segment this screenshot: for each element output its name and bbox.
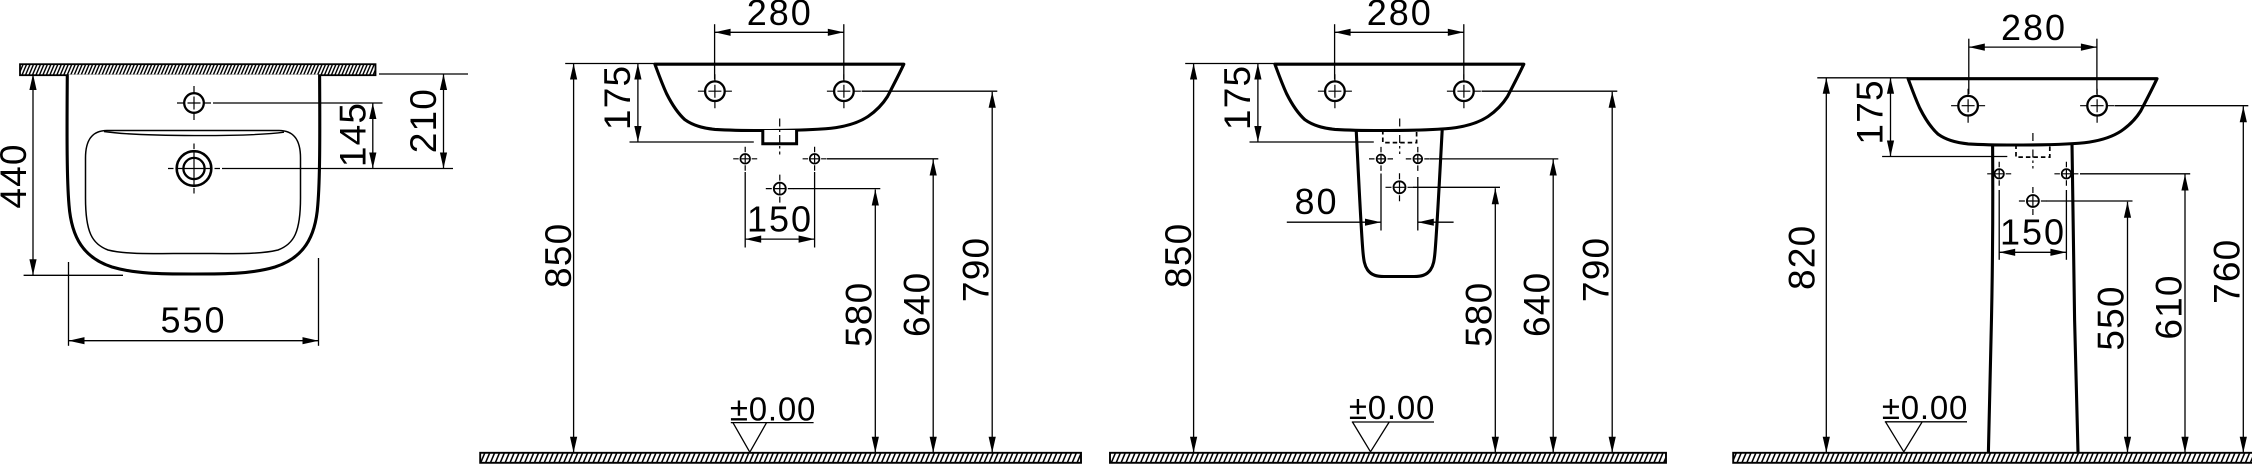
svg-text:610: 610 bbox=[2148, 274, 2189, 339]
svg-text:175: 175 bbox=[1850, 79, 1891, 144]
dimension 850 (view 3) bbox=[1158, 64, 1199, 453]
550 extension line (view 4) bbox=[2047, 200, 2133, 202]
pedestal left edge (view 4) bbox=[1988, 144, 1992, 452]
80 dim extension lines (view 3) bbox=[1380, 174, 1382, 231]
cover fixing holes (view 3) bbox=[1369, 147, 1393, 171]
dimension 210 (wall to drain) bbox=[403, 74, 447, 169]
dimension 150 (view 4) bbox=[1999, 212, 2066, 256]
dimension 175 (view 3) bbox=[1217, 64, 1262, 143]
inner bowl outline (plan) bbox=[86, 131, 301, 254]
inner bowl back ledge line bbox=[104, 132, 284, 136]
dimension 175 (rim to bottom, view 2) bbox=[597, 64, 642, 143]
extension line from tap hole to 145 dim bbox=[213, 102, 383, 104]
dimension 280 (view 4) bbox=[1969, 7, 2097, 51]
tap hole (plan) bbox=[177, 86, 211, 120]
dimension 280 (view 3) bbox=[1335, 0, 1464, 36]
washbasin front profile (view 4) bbox=[1908, 79, 2157, 145]
extension line from drain to 210/145 dims bbox=[222, 168, 453, 170]
850 top extension line (view 3) bbox=[1185, 63, 1275, 65]
580 extension line (view 3) bbox=[1413, 186, 1500, 188]
dimension 760 (view 4) bbox=[2207, 106, 2248, 453]
760 extension line (view 4) bbox=[2115, 105, 2249, 107]
svg-text:820: 820 bbox=[1782, 225, 1823, 290]
dimension 150 (fixing hole spacing, view 2) bbox=[745, 199, 814, 243]
svg-text:±0.00: ±0.00 bbox=[1882, 389, 1968, 426]
svg-text:±0.00: ±0.00 bbox=[1349, 389, 1435, 426]
dimension 580 (view 3) bbox=[1459, 188, 1500, 453]
drain/overflow hole (view 2) bbox=[766, 175, 794, 203]
svg-text:850: 850 bbox=[1158, 223, 1199, 288]
790 extension line (view 2) bbox=[862, 90, 998, 92]
svg-text:145: 145 bbox=[333, 102, 374, 167]
dimension 175 (view 4) bbox=[1850, 78, 1895, 157]
svg-text:790: 790 bbox=[955, 237, 996, 302]
svg-text:280: 280 bbox=[747, 0, 813, 33]
dimension 790 (view 3) bbox=[1575, 92, 1616, 453]
svg-text:±0.00: ±0.00 bbox=[730, 390, 816, 427]
280 extension lines (view 4) bbox=[1968, 39, 1970, 94]
drain/overflow hole (view 4) bbox=[2019, 187, 2047, 215]
svg-text:280: 280 bbox=[1367, 0, 1433, 33]
floor datum ±0.00 (view 3) bbox=[1349, 389, 1435, 452]
drain/overflow hole (view 3) bbox=[1386, 173, 1414, 201]
svg-text:850: 850 bbox=[538, 223, 579, 288]
fixing holes (view 4) bbox=[1987, 162, 2011, 186]
svg-text:175: 175 bbox=[1217, 65, 1258, 130]
svg-text:210: 210 bbox=[403, 88, 444, 153]
hidden drain tab (dashed, view 4) bbox=[2016, 145, 2050, 158]
floor line (view 2) bbox=[480, 453, 1081, 463]
150 extension lines (view 4) bbox=[1998, 190, 2000, 260]
640 extension line (view 3) bbox=[1430, 158, 1558, 160]
850 top extension line (view 2) bbox=[565, 63, 655, 65]
hidden drain tab (dashed, view 3) bbox=[1383, 130, 1417, 143]
svg-text:760: 760 bbox=[2207, 239, 2248, 304]
175 bottom extension line (view 2) bbox=[630, 141, 754, 143]
dimension 280 (tap hole spacing, view 2) bbox=[715, 0, 844, 36]
175 bottom extension line (view 4) bbox=[1882, 156, 2007, 158]
svg-text:550: 550 bbox=[2091, 285, 2132, 350]
820 top extension line (view 4) bbox=[1817, 77, 1908, 79]
svg-text:150: 150 bbox=[2000, 212, 2066, 253]
svg-text:640: 640 bbox=[1517, 272, 1558, 337]
siphon cover (half pedestal, view 3) bbox=[1356, 130, 1442, 277]
washbasin front profile (view 3) bbox=[1275, 64, 1524, 130]
fixing holes (view 2) bbox=[733, 147, 757, 171]
floor line (view 3) bbox=[1110, 453, 1666, 463]
svg-text:550: 550 bbox=[160, 300, 226, 341]
floor line (view 4) bbox=[1733, 453, 2252, 463]
280 extension lines (view 2) bbox=[714, 24, 716, 79]
dimension 550 (view 4) bbox=[2091, 202, 2132, 453]
580 extension line (view 2) bbox=[794, 188, 881, 190]
150 extension lines (view 2) bbox=[744, 172, 746, 248]
dimension 790 (view 2) bbox=[955, 92, 996, 453]
drain tab (view 2) bbox=[763, 130, 797, 144]
dimension 440 (basin depth) bbox=[0, 74, 37, 275]
svg-text:640: 640 bbox=[897, 272, 938, 337]
svg-text:280: 280 bbox=[2001, 7, 2067, 48]
extension line wall bottom to 210 dim bbox=[379, 73, 468, 75]
dimension 80 (cover fixing hole spacing, view 3) bbox=[1287, 181, 1454, 226]
washbasin outer outline (plan) bbox=[67, 75, 320, 275]
svg-text:790: 790 bbox=[1575, 237, 1616, 302]
svg-text:175: 175 bbox=[597, 65, 638, 130]
tap holes (front) bbox=[698, 74, 861, 108]
280 extension lines (view 3) bbox=[1334, 24, 1336, 79]
640 extension line (view 2) bbox=[827, 158, 938, 160]
dimension 145 (tap hole to drain) bbox=[333, 102, 377, 169]
pedestal right edge (view 4) bbox=[2072, 144, 2078, 452]
dimension 550 (basin width, plan) bbox=[69, 300, 319, 345]
tap holes (front) bbox=[1318, 74, 1481, 108]
dimension 580 (view 2) bbox=[839, 190, 880, 453]
tap holes (front) bbox=[1951, 89, 2114, 123]
790 extension line (view 3) bbox=[1482, 90, 1618, 92]
svg-text:440: 440 bbox=[0, 143, 34, 208]
washbasin front profile (view 2) bbox=[655, 64, 904, 130]
floor datum ±0.00 (view 2) bbox=[730, 390, 816, 452]
extension lines basin width (550 dim) bbox=[68, 262, 70, 346]
610 extension line (view 4) bbox=[2080, 173, 2190, 175]
wall section (hatched) bbox=[20, 64, 376, 75]
dimension 640 (view 2) bbox=[897, 160, 938, 453]
svg-text:150: 150 bbox=[747, 199, 813, 240]
svg-text:80: 80 bbox=[1294, 181, 1338, 222]
dimension 640 (view 3) bbox=[1517, 160, 1558, 453]
drain outlet (plan) bbox=[168, 144, 220, 194]
floor datum ±0.00 (view 4) bbox=[1882, 389, 1968, 452]
175 bottom extension line (view 3) bbox=[1250, 141, 1374, 143]
dimension 850 (rim height, view 2) bbox=[538, 64, 579, 453]
extension line basin front edge (440 dim) bbox=[24, 274, 123, 276]
dimension 610 (view 4) bbox=[2148, 175, 2189, 453]
dimension 820 (rim height, view 4) bbox=[1782, 78, 1830, 453]
svg-text:580: 580 bbox=[839, 282, 880, 347]
svg-text:580: 580 bbox=[1459, 282, 1500, 347]
